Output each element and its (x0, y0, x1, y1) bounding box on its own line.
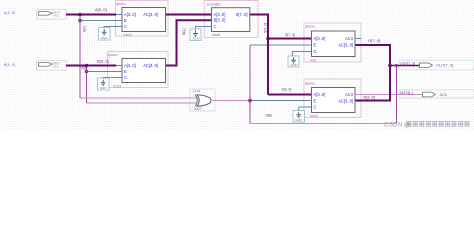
svg-text:GND: GND (295, 118, 303, 122)
svg-text:OUT[7..0]: OUT[7..0] (400, 62, 415, 66)
svg-text:O[7..4]: O[7..4] (368, 38, 380, 43)
svg-text:chengfa: chengfa (207, 1, 222, 6)
svg-text:inst1: inst1 (310, 113, 318, 118)
svg-text:C: C (124, 24, 127, 29)
svg-text:B[4..0]: B[4..0] (4, 63, 15, 67)
svg-text:C: C (214, 24, 217, 29)
svg-text:inst6: inst6 (212, 32, 220, 37)
svg-text:AC[3..0]: AC[3..0] (143, 63, 158, 68)
svg-text:O[3..0]: O[3..0] (363, 95, 375, 100)
svg-text:A[4]: A[4] (82, 26, 86, 32)
svg-text:inst: inst (310, 57, 317, 62)
svg-text:A[3..0]: A[3..0] (214, 12, 226, 17)
svg-text:qiubu: qiubu (305, 81, 315, 86)
svg-text:VCC: VCC (53, 65, 59, 69)
svg-text:A[3..0]: A[3..0] (124, 12, 136, 17)
svg-text:qiubu: qiubu (108, 52, 118, 57)
svg-text:qiubu: qiubu (305, 24, 315, 29)
svg-text:AC8: AC8 (440, 93, 447, 97)
svg-text:S[7..0]: S[7..0] (236, 12, 248, 17)
svg-text:qiubu: qiubu (116, 1, 126, 6)
svg-text:GND: GND (100, 86, 108, 90)
svg-text:S[7..0]: S[7..0] (263, 23, 267, 33)
svg-text:E: E (314, 43, 317, 48)
svg-text:C: C (124, 75, 127, 80)
svg-text:inst7: inst7 (194, 107, 202, 111)
svg-text:S[3..0]: S[3..0] (282, 88, 292, 92)
svg-text:E: E (124, 69, 127, 74)
svg-text:B[3..0]: B[3..0] (214, 18, 226, 23)
svg-text:E: E (314, 99, 317, 104)
svg-text:AC4: AC4 (345, 92, 354, 97)
svg-text:OUT[7..0]: OUT[7..0] (436, 63, 453, 68)
svg-text:OBL: OBL (266, 113, 273, 117)
svg-text:AC[3..0]: AC[3..0] (338, 43, 353, 48)
svg-text:GND: GND (101, 36, 109, 40)
svg-text:CSDN @: CSDN @ (384, 122, 410, 129)
svg-text:C: C (314, 49, 317, 54)
svg-text:inst2: inst2 (124, 32, 132, 37)
svg-text:AC4: AC4 (345, 36, 354, 41)
svg-text:B[4]: B[4] (82, 66, 88, 70)
svg-text:A[3..0]: A[3..0] (314, 92, 326, 97)
svg-text:VCC: VCC (53, 14, 59, 18)
svg-text:A[3..0]: A[3..0] (314, 36, 326, 41)
svg-text:A[3..0]: A[3..0] (95, 7, 107, 12)
svg-text:B[3..0]: B[3..0] (97, 58, 109, 63)
svg-text:E: E (124, 18, 127, 23)
svg-text:AC[3..0]: AC[3..0] (338, 99, 353, 104)
svg-text:XOR: XOR (193, 89, 201, 93)
svg-text:BC[..]: BC[..] (182, 28, 186, 35)
svg-text:inst3: inst3 (113, 84, 121, 89)
svg-text:GND: GND (290, 63, 298, 67)
svg-text:AC[3..0]: AC[3..0] (143, 12, 158, 17)
svg-text:A[3..0]: A[3..0] (124, 63, 136, 68)
svg-text:S[7..4]: S[7..4] (285, 33, 295, 37)
svg-text:A[4..0]: A[4..0] (4, 11, 15, 15)
svg-text:OUT4[..]: OUT4[..] (400, 91, 413, 95)
svg-text:GND: GND (193, 37, 201, 41)
svg-text:C: C (314, 105, 317, 110)
